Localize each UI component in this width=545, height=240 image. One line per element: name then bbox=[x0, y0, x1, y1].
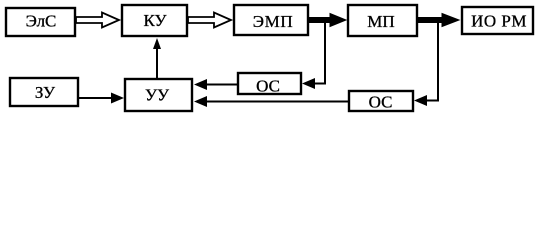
wire tap from MP-IORM arrow down to OS2 bbox=[426, 21, 438, 101]
block UU (УУ) bbox=[125, 79, 192, 111]
arrowhead into UU right (lower) bbox=[194, 96, 207, 107]
arrowhead into UU left bbox=[111, 93, 124, 104]
thick arrow EMP to MP bbox=[309, 14, 346, 27]
svg-text:ЭлС: ЭлС bbox=[26, 12, 57, 31]
svg-text:УУ: УУ bbox=[145, 86, 170, 105]
arrowhead into OS1 right bbox=[302, 78, 315, 89]
block EMP (ЭМП) bbox=[234, 5, 308, 35]
wire tap from EMP-MP arrow down to OS1 bbox=[314, 21, 325, 84]
block OS2 (ОС) bbox=[349, 91, 413, 112]
block MP (МП) bbox=[348, 5, 417, 36]
arrowhead into OS2 right bbox=[414, 95, 427, 106]
wire OS1 to UU bbox=[206, 84, 238, 86]
svg-text:ЗУ: ЗУ bbox=[35, 83, 56, 102]
svg-text:ОС: ОС bbox=[256, 77, 280, 96]
block ElS (ЭлС) bbox=[6, 8, 75, 36]
block IO RM (ИО РМ) bbox=[462, 7, 533, 34]
block KU (КУ) bbox=[122, 5, 187, 36]
arrowhead into UU right (upper) bbox=[194, 79, 207, 90]
wire UU up to KU bbox=[156, 46, 158, 79]
hollow arrow KU to EMP bbox=[188, 13, 231, 28]
svg-text:МП: МП bbox=[367, 12, 394, 31]
arrowhead into KU bottom bbox=[153, 38, 161, 49]
thick arrow MP to IO RM bbox=[418, 14, 459, 27]
hollow arrow ElS to KU bbox=[76, 13, 119, 28]
block ZU (ЗУ) bbox=[10, 78, 78, 106]
svg-text:ОС: ОС bbox=[369, 93, 393, 112]
wire OS2 to UU bbox=[206, 101, 349, 103]
svg-text:ЭМП: ЭМП bbox=[253, 12, 293, 31]
svg-text:ИО РМ: ИО РМ bbox=[471, 12, 527, 31]
block OS1 (ОС) bbox=[238, 73, 301, 96]
wire ZU to UU bbox=[78, 97, 112, 99]
svg-text:КУ: КУ bbox=[143, 11, 167, 30]
